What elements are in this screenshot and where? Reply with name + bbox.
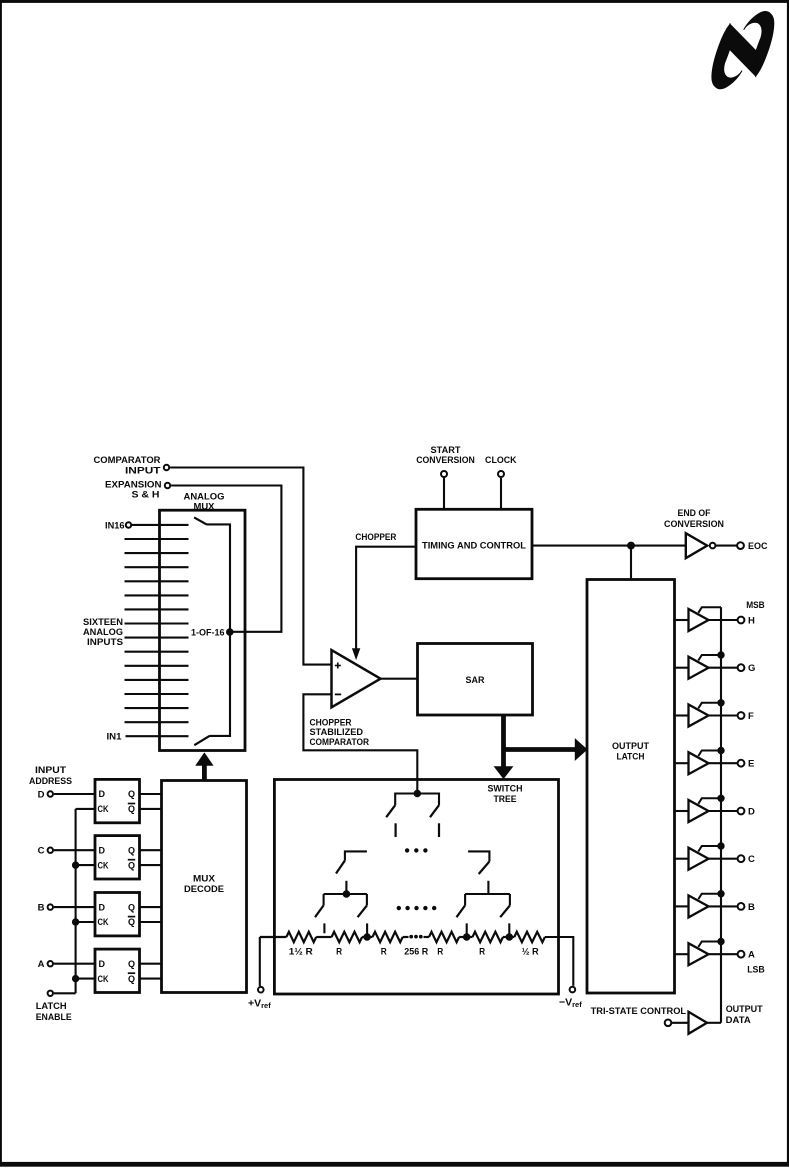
terminal address D xyxy=(38,789,53,800)
wire tri-state enable bus xyxy=(720,607,722,1023)
svg-text:1½ R: 1½ R xyxy=(289,947,313,958)
wire flip-flop C Qbar output xyxy=(140,864,162,866)
junction dot enable bit C xyxy=(718,843,724,849)
wire A input to flip-flop xyxy=(54,963,95,965)
wire expansion S&H to 1-of-16 node xyxy=(171,486,281,632)
wire flip-flop B Q output xyxy=(140,906,162,908)
svg-text:CK: CK xyxy=(98,804,109,814)
wire flip-flop A Qbar output xyxy=(140,978,162,980)
wire analog input line 4 xyxy=(125,693,189,695)
ladder ellipsis 256 R xyxy=(403,935,429,958)
wire CHOPPER (timing to comparator) xyxy=(355,532,416,651)
block SWITCH TREE box xyxy=(274,780,558,995)
ellipsis dots level-2 xyxy=(397,906,436,909)
junction dots clock bus xyxy=(72,862,78,982)
block SAR xyxy=(418,644,533,716)
svg-text:Q: Q xyxy=(128,845,135,855)
resistor R (c) xyxy=(429,932,459,958)
svg-text:B: B xyxy=(748,902,755,913)
block TIMING AND CONTROL xyxy=(416,509,532,578)
svg-text:A: A xyxy=(38,959,45,970)
svg-text:DATA: DATA xyxy=(726,1015,751,1026)
wire flip-flop D Qbar output xyxy=(140,808,162,810)
svg-text:CONVERSION: CONVERSION xyxy=(416,455,475,466)
National Semiconductor logo xyxy=(712,12,774,89)
svg-text:CK: CK xyxy=(98,917,109,927)
terminal output D xyxy=(709,806,756,817)
svg-text:IN1: IN1 xyxy=(107,732,123,743)
tri-state buffer bit B xyxy=(675,894,722,918)
svg-text:TIMING AND CONTROL: TIMING AND CONTROL xyxy=(422,540,526,551)
wire flip-flop A Q output xyxy=(140,963,162,965)
ellipsis dots level-1 xyxy=(405,849,427,852)
thick wire SAR to output latch (arrow right) xyxy=(504,739,587,760)
resistor R (d) xyxy=(459,932,503,958)
svg-text:Q: Q xyxy=(128,902,135,912)
wire op-amp minus input from switch tree xyxy=(303,694,417,793)
svg-text:R: R xyxy=(336,947,342,958)
junction node EOC/latch xyxy=(628,542,635,549)
terminal address A xyxy=(38,959,53,970)
label SIXTEEN ANALOG INPUTS xyxy=(83,617,123,648)
wire B input to flip-flop xyxy=(54,906,95,908)
terminal LATCH ENABLE xyxy=(36,991,76,1023)
buffer tri-state control xyxy=(672,1012,721,1034)
svg-text:SAR: SAR xyxy=(466,675,485,686)
svg-text:Q: Q xyxy=(128,860,135,870)
wire timing to EOC buffer and output latch xyxy=(532,546,686,580)
wire flip-flop C clock xyxy=(76,864,95,866)
svg-text:R: R xyxy=(479,947,485,958)
svg-text:Q: Q xyxy=(128,917,135,927)
terminal output C xyxy=(709,854,756,865)
wire analog input line 3 xyxy=(125,707,189,709)
svg-text:F: F xyxy=(748,711,754,722)
svg-text:Q: Q xyxy=(128,804,135,814)
svg-text:D: D xyxy=(748,806,755,817)
terminal output A xyxy=(709,950,756,961)
switch tree level-3 left pair xyxy=(315,881,367,917)
wire analog input line 13 xyxy=(125,566,189,568)
svg-text:−Vref: −Vref xyxy=(559,997,582,1010)
wire analog input line 12 xyxy=(125,580,189,582)
svg-text:A: A xyxy=(748,950,755,961)
terminal IN16 xyxy=(105,521,131,532)
terminal output H xyxy=(709,615,756,626)
wire flip-flop C Q output xyxy=(140,849,162,851)
terminal EXPANSION S & H xyxy=(105,480,170,501)
tri-state buffer bit F xyxy=(675,703,722,727)
block MUX DECODE xyxy=(162,781,247,993)
svg-text:D: D xyxy=(99,789,106,799)
switch tree level-2 right switch xyxy=(468,851,489,874)
svg-text:S & H: S & H xyxy=(132,489,160,500)
label INPUT ADDRESS xyxy=(29,765,72,787)
terminal START CONVERSION xyxy=(416,445,475,509)
wire IN16 input line xyxy=(132,524,189,526)
ladder tap junction dots xyxy=(364,934,513,941)
svg-text:ADDRESS: ADDRESS xyxy=(29,776,72,787)
svg-text:SWITCH: SWITCH xyxy=(488,784,523,795)
svg-text:B: B xyxy=(38,903,45,914)
svg-text:CONVERSION: CONVERSION xyxy=(664,519,724,530)
label END OF CONVERSION xyxy=(664,508,724,530)
wire latch enable clock bus xyxy=(75,809,77,993)
terminal output G xyxy=(709,663,756,674)
tri-state buffer bit E xyxy=(675,751,722,775)
junction dot enable bit E xyxy=(718,747,724,753)
switch IN16 (mux selected channel) xyxy=(194,517,230,632)
svg-text:OUTPUT: OUTPUT xyxy=(726,1004,763,1015)
svg-text:TRI-STATE CONTROL: TRI-STATE CONTROL xyxy=(591,1006,687,1017)
wire analog input line 15 xyxy=(125,538,189,540)
block OUTPUT LATCH xyxy=(587,580,675,994)
svg-text:LATCH: LATCH xyxy=(36,1001,67,1012)
terminal COMPARATOR INPUT xyxy=(94,455,170,476)
wire analog input line 11 xyxy=(125,594,189,596)
svg-text:END OF: END OF xyxy=(678,508,711,519)
wire flip-flop B clock xyxy=(76,921,95,923)
label OUTPUT DATA xyxy=(726,1004,763,1026)
terminal output F xyxy=(709,711,755,722)
svg-text:CHOPPER: CHOPPER xyxy=(355,532,396,543)
svg-text:CLOCK: CLOCK xyxy=(485,455,517,466)
svg-text:H: H xyxy=(748,615,755,626)
svg-text:EOC: EOC xyxy=(748,541,768,552)
terminal output B xyxy=(709,902,756,913)
svg-text:INPUT: INPUT xyxy=(125,465,161,476)
tri-state buffer bit A xyxy=(675,942,722,966)
svg-text:OUTPUT: OUTPUT xyxy=(612,741,649,752)
svg-text:MSB: MSB xyxy=(746,600,765,611)
svg-text:INPUT: INPUT xyxy=(35,765,66,776)
svg-text:CK: CK xyxy=(98,860,109,870)
switch tree level-3 right pair xyxy=(457,881,510,917)
wire analog input line 5 xyxy=(125,679,189,681)
wire analog input line 7 xyxy=(125,651,189,653)
svg-text:INPUTS: INPUTS xyxy=(87,637,123,648)
tri-state buffer bit H xyxy=(675,607,722,631)
tri-state buffer bit C xyxy=(675,846,722,870)
svg-text:LSB: LSB xyxy=(747,964,765,975)
terminal address C xyxy=(38,846,53,857)
flip-flop B (D latch) xyxy=(95,893,140,936)
svg-text:D: D xyxy=(38,789,45,800)
node switch tree root xyxy=(414,790,421,797)
junction dot enable bit F xyxy=(718,700,724,706)
switch IN1 (mux bottom channel) xyxy=(194,632,230,745)
svg-text:256 R: 256 R xyxy=(404,947,428,958)
analog mux box xyxy=(160,491,246,750)
label CHOPPER STABILIZED COMPARATOR xyxy=(310,717,370,748)
svg-text:½ R: ½ R xyxy=(522,947,539,958)
svg-text:+Vref: +Vref xyxy=(248,998,271,1011)
svg-text:CK: CK xyxy=(98,974,109,984)
svg-text:D: D xyxy=(99,902,106,912)
svg-text:LATCH: LATCH xyxy=(617,752,645,763)
tri-state buffer bit D xyxy=(675,798,722,822)
wire op-amp output to SAR xyxy=(381,678,418,680)
flip-flop A (D latch) xyxy=(95,949,140,992)
wire analog input line 2 xyxy=(125,721,189,723)
wire analog input line 8 xyxy=(125,637,189,639)
wire analog input line 9 xyxy=(125,622,189,624)
wire analog input line 14 xyxy=(125,552,189,554)
svg-text:C: C xyxy=(38,846,45,857)
terminal CLOCK xyxy=(485,455,517,509)
wire IN1 input line xyxy=(107,732,189,743)
junction dot enable bit D xyxy=(718,795,724,801)
svg-text:Q: Q xyxy=(128,959,135,969)
thick wire SAR to switch tree (arrow down) xyxy=(495,715,513,778)
terminal EOC xyxy=(716,541,768,552)
wire flip-flop B Qbar output xyxy=(140,921,162,923)
svg-text:Q: Q xyxy=(128,789,135,799)
switch tree level-1 left switch xyxy=(386,794,417,838)
junction dot enable bit A xyxy=(718,938,724,944)
svg-text:G: G xyxy=(748,663,755,674)
flip-flop C (D latch) xyxy=(95,836,140,879)
svg-text:ENABLE: ENABLE xyxy=(36,1012,72,1023)
resistor R (b) xyxy=(362,932,403,958)
svg-text:C: C xyxy=(748,854,755,865)
svg-text:E: E xyxy=(748,759,754,770)
svg-text:IN16: IN16 xyxy=(105,521,125,532)
node 1-OF-16 output xyxy=(191,627,233,638)
svg-text:DECODE: DECODE xyxy=(184,884,224,895)
svg-text:COMPARATOR: COMPARATOR xyxy=(310,737,370,748)
junction dot enable bit G xyxy=(718,652,724,658)
svg-text:D: D xyxy=(99,959,106,969)
terminal output E xyxy=(709,759,755,770)
resistor R (a) xyxy=(316,932,362,958)
resistor 1-1/2 R xyxy=(260,932,316,958)
svg-text:1-OF-16: 1-OF-16 xyxy=(191,627,225,638)
svg-text:R: R xyxy=(381,947,387,958)
wire D input to flip-flop xyxy=(54,793,95,795)
junction dot enable bit B xyxy=(718,891,724,897)
wire analog input line 6 xyxy=(125,665,189,667)
tri-state buffer bit G xyxy=(675,655,722,679)
svg-text:R: R xyxy=(437,947,443,958)
terminal address B xyxy=(38,903,53,914)
buffer EOC xyxy=(686,533,716,558)
op-amp U1 chopper stabilized comparator xyxy=(332,650,381,707)
svg-text:Q: Q xyxy=(128,974,135,984)
terminal -Vref xyxy=(545,937,582,1009)
wire analog input line 10 xyxy=(125,608,189,610)
switch tree level-1 right switch xyxy=(417,794,439,838)
svg-text:TREE: TREE xyxy=(494,794,517,805)
flip-flop D (D latch) xyxy=(95,779,140,822)
svg-text:D: D xyxy=(99,845,106,855)
wire C input to flip-flop xyxy=(54,849,95,851)
label SWITCH TREE xyxy=(488,784,523,805)
terminal +Vref xyxy=(248,937,271,1010)
wire comparator input to op-amp + xyxy=(170,468,331,665)
switch tree level-2 left switch xyxy=(336,851,367,873)
arrowhead chopper into comparator xyxy=(353,649,360,659)
ladder tap ticks xyxy=(324,923,509,937)
thick arrow mux decode to analog mux xyxy=(196,753,212,780)
wire flip-flop A clock xyxy=(76,978,95,980)
wire flip-flop D clock xyxy=(76,808,95,810)
resistor 1/2 R xyxy=(503,932,545,958)
wire flip-flop D Q output xyxy=(140,793,162,795)
terminal TRI-STATE CONTROL xyxy=(591,1006,687,1026)
